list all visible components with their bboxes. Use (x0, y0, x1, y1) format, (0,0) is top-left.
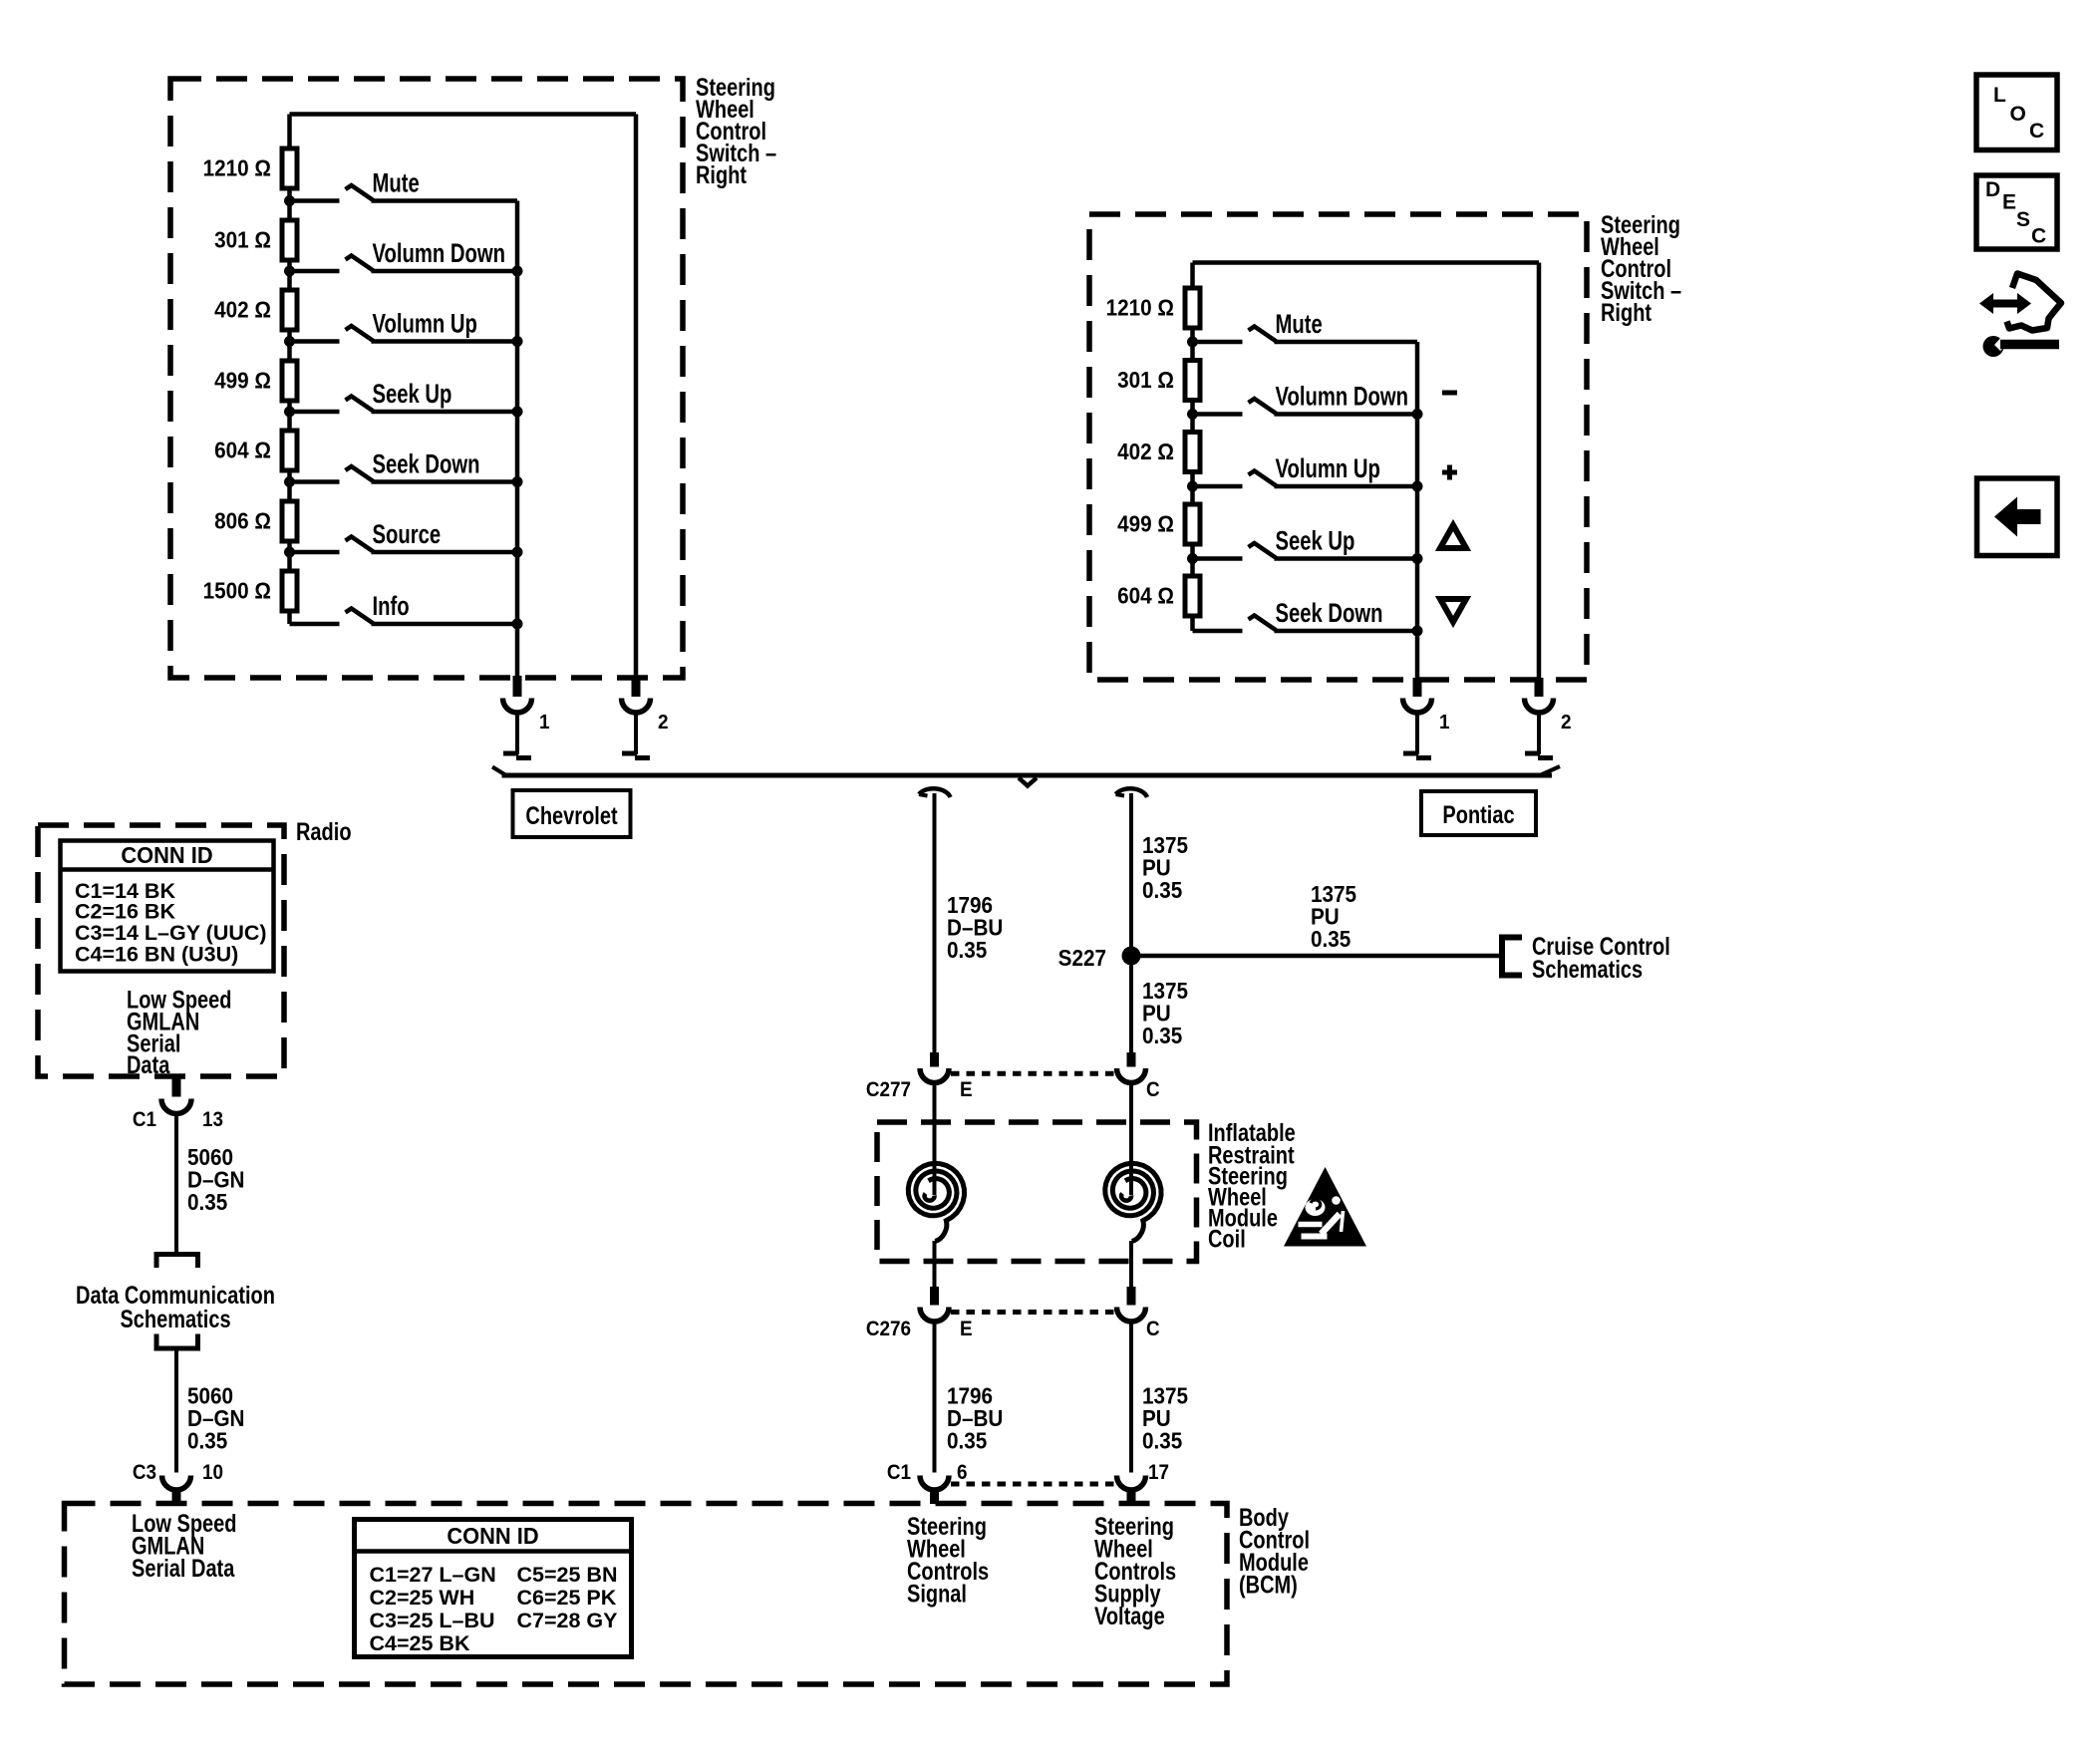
svg-text:E: E (2002, 191, 2016, 214)
label: 604 &#937; (left box) (214, 437, 271, 462)
svg-text:604 Ω: 604 Ω (1117, 582, 1174, 608)
svg-text:(BCM): (BCM) (1239, 1571, 1298, 1599)
coil spiral (supply) (1105, 1163, 1161, 1241)
bus merge chevron (1019, 778, 1037, 786)
icon: LOC button (1976, 75, 2057, 150)
svg-text:C1=27 L–GN: C1=27 L–GN (370, 1563, 496, 1587)
svg-text:C277: C277 (866, 1078, 911, 1101)
svg-text:17: 17 (1148, 1461, 1169, 1484)
svg-text:Volumn Down: Volumn Down (373, 238, 505, 269)
symbol: plus (Volumn Up) (1442, 465, 1457, 480)
off-page bracket: data communication (top) (156, 1255, 198, 1269)
junction dot ladder row 2 (right box) (1187, 409, 1198, 420)
svg-text:301 Ω: 301 Ω (1117, 367, 1174, 393)
svg-text:Schematics: Schematics (1532, 956, 1643, 984)
label: 5060 D-GN 0.35 (upper) (187, 1144, 245, 1215)
bus end tick left (492, 767, 505, 775)
label: 1210 &#937; (right box) (1106, 294, 1174, 320)
wire: coil to C276-C (1129, 1241, 1133, 1287)
label C277 (866, 1078, 911, 1101)
label: 1500 &#937; (left box) (203, 577, 271, 603)
switch: Info (left box) (290, 591, 518, 624)
switch: Source (left box) (290, 519, 518, 552)
label: Low Speed GMLAN Serial Data (Radio) (127, 986, 232, 1078)
svg-text:0.35: 0.35 (947, 1427, 987, 1453)
label: 499 &#937; (left box) (214, 367, 271, 393)
svg-text:E: E (960, 1318, 973, 1340)
junction dot bus row 5 (left box) (512, 476, 523, 487)
svg-text:Source: Source (373, 519, 442, 550)
switch: Volumn Up (left box) (290, 309, 518, 342)
wire: C276-E to BCM (933, 1322, 937, 1473)
svg-text:402 Ω: 402 Ω (214, 296, 271, 322)
svg-text:6: 6 (957, 1461, 968, 1484)
wire: top jumper of right switch assembly (1193, 263, 1540, 681)
svg-text:1: 1 (1439, 712, 1450, 735)
wire: top jumper of left switch assembly (290, 115, 637, 679)
svg-text:Pontiac: Pontiac (1442, 801, 1514, 829)
svg-text:C3=14 L–GY (UUC): C3=14 L–GY (UUC) (75, 921, 267, 945)
svg-text:C1: C1 (887, 1461, 911, 1484)
connector C276 pin E (920, 1287, 949, 1322)
splice S227 (1058, 945, 1141, 971)
label: Inflatable Restraint Steering Wheel Module Coil (1208, 1119, 1296, 1253)
label: Cruise Control Schematics (1532, 933, 1670, 984)
connector pin 2 (Chevrolet switch) (622, 676, 651, 713)
icon: back arrow button (1977, 478, 2058, 556)
svg-text:1: 1 (539, 712, 550, 735)
junction dot ladder row 2 (left box) (284, 266, 295, 277)
svg-text:C1: C1 (133, 1108, 156, 1131)
resistor 402 ohm (left box, row 3) (282, 290, 297, 330)
svg-text:C5=25 BN: C5=25 BN (517, 1563, 618, 1587)
label: 1796 D-BU 0.35 (upper) (947, 892, 1003, 963)
svg-text:Volumn Up: Volumn Up (1276, 453, 1380, 484)
junction dot bus row 4 (right box) (1412, 553, 1423, 564)
switch: Volumn Down (right box) (1193, 382, 1418, 415)
svg-text:Schematics: Schematics (120, 1306, 230, 1333)
connector pin 1 (Chevrolet switch) (503, 676, 532, 713)
label: 1796 D-BU 0.35 (lower) (947, 1382, 1003, 1453)
svg-text:C2=16 BK: C2=16 BK (75, 900, 175, 924)
label: Radio (296, 818, 352, 846)
svg-text:10: 10 (202, 1461, 223, 1484)
connector pin 2 (Pontiac switch) (1525, 678, 1554, 713)
svg-text:Data: Data (127, 1051, 170, 1079)
wire: horizontal merge bus (502, 773, 1553, 778)
label C (C276) (1146, 1318, 1160, 1340)
junction dot bus row 2 (right box) (1412, 409, 1423, 420)
label: 402 &#937; (left box) (214, 296, 271, 322)
label: Low Speed GMLAN Serial Data (BCM) (132, 1510, 237, 1583)
pin label 10 (BCM) (202, 1461, 223, 1484)
svg-text:S227: S227 (1058, 945, 1106, 971)
junction dot ladder row 3 (right box) (1187, 481, 1198, 492)
svg-text:806 Ω: 806 Ω (214, 507, 271, 533)
svg-text:CONN ID: CONN ID (447, 1523, 538, 1549)
svg-text:Mute: Mute (1276, 309, 1323, 340)
label: 402 &#937; (right box) (1117, 439, 1174, 464)
svg-text:C: C (2029, 120, 2044, 143)
label: Data Communication Schematics (76, 1282, 275, 1333)
switch: Seek Up (left box) (290, 379, 518, 412)
svg-text:Volumn Down: Volumn Down (1276, 382, 1408, 413)
svg-text:Chevrolet: Chevrolet (525, 802, 618, 830)
resistor 301 ohm (right box, row 2) (1185, 361, 1200, 401)
connector BCM pin 17 (1117, 1476, 1146, 1505)
wire tap squiggle (supply wire) (1116, 788, 1148, 797)
connector pin 1 (Pontiac switch) (1403, 678, 1432, 713)
junction dot bus row 3 (left box) (512, 336, 523, 347)
junction dot ladder row 6 (left box) (284, 547, 295, 558)
svg-text:499 Ω: 499 Ω (1117, 510, 1174, 536)
svg-text:1210 Ω: 1210 Ω (203, 154, 271, 180)
connector BCM pin 6 (920, 1476, 949, 1505)
svg-text:C7=28 GY: C7=28 GY (517, 1609, 618, 1632)
label: Body Control Module (BCM) (1239, 1504, 1310, 1599)
label E (C277) (960, 1078, 973, 1101)
label: Steering Wheel Controls Signal (907, 1513, 989, 1608)
wire: resistor ladder vertical (left box) (287, 147, 292, 624)
switch: Volumn Up (right box) (1193, 453, 1418, 486)
symbol: minus (Volumn Down) (1442, 391, 1457, 396)
warning triangle: SRS airbag (1284, 1167, 1366, 1247)
resistor 604 ohm (left box, row 5) (282, 431, 297, 470)
switch: Mute (left box) (290, 168, 518, 201)
svg-text:0.35: 0.35 (187, 1427, 227, 1453)
table: Radio CONN ID box (61, 841, 274, 972)
connector BCM pin 10 (162, 1476, 191, 1505)
pin label 6 (BCM) (957, 1461, 968, 1484)
svg-text:Coil: Coil (1208, 1225, 1246, 1253)
switch: Seek Down (right box) (1193, 598, 1418, 631)
label: 604 &#937; (right box) (1117, 582, 1174, 608)
resistor 499 ohm (left box, row 4) (282, 361, 297, 401)
svg-text:0.35: 0.35 (1142, 1427, 1182, 1453)
svg-text:Right: Right (696, 161, 747, 189)
junction dot bus row 7 (left box) (512, 619, 523, 630)
resistor 1210 ohm (right box, row 1) (1185, 288, 1200, 328)
label: 1375 PU 0.35 (above S227) (1142, 832, 1188, 903)
icon: schematic navigation (car outline with double arrow and wrench) (1979, 274, 2061, 358)
wire: switch output bus (left box) (515, 201, 520, 679)
svg-text:C4=16 BN (U3U): C4=16 BN (U3U) (75, 943, 238, 967)
label box: Chevrolet (513, 790, 631, 837)
label E (C276) (960, 1318, 973, 1340)
svg-text:402 Ω: 402 Ω (1117, 439, 1174, 464)
svg-text:C3=25 L–BU: C3=25 L–BU (370, 1609, 495, 1632)
pin label 13 (Radio) (202, 1108, 223, 1131)
wire: C277-E to coil (933, 1083, 937, 1196)
component box: Body Control Module (BCM), dashed outline (65, 1504, 1228, 1685)
svg-text:13: 13 (202, 1108, 223, 1131)
switch: Mute (right box) (1193, 309, 1418, 342)
svg-text:Seek Up: Seek Up (373, 379, 452, 410)
svg-text:0.35: 0.35 (1142, 877, 1182, 903)
junction dot ladder row 4 (left box) (284, 407, 295, 418)
resistor 806 ohm (left box, row 6) (282, 501, 297, 541)
svg-text:0.35: 0.35 (1142, 1023, 1182, 1048)
svg-text:301 Ω: 301 Ω (214, 226, 271, 252)
wire: below Pontiac pin 2 (1525, 713, 1553, 758)
dotted tie C277 (951, 1071, 1115, 1076)
svg-text:Seek Down: Seek Down (373, 449, 480, 480)
resistor 1210 ohm (left box, row 1) (282, 148, 297, 188)
svg-text:Signal: Signal (907, 1580, 967, 1608)
svg-text:C: C (1146, 1318, 1160, 1340)
wire: switch output bus (right box) (1415, 342, 1420, 680)
wire: 1796 D-BU 0.35 signal drop (933, 793, 937, 1052)
svg-text:1500 Ω: 1500 Ω (203, 577, 271, 603)
label: 1375 PU 0.35 (below S227) (1142, 978, 1188, 1048)
svg-text:Volumn Up: Volumn Up (373, 309, 477, 340)
svg-text:2: 2 (1561, 712, 1572, 735)
svg-text:L: L (1993, 84, 2006, 107)
junction dot bus row 3 (right box) (1412, 481, 1423, 492)
connector Radio C1 pin 13 (161, 1074, 191, 1114)
svg-text:Seek Up: Seek Up (1276, 526, 1355, 557)
svg-text:604 Ω: 604 Ω (214, 437, 271, 462)
label: 1210 &#937; (left box) (203, 154, 271, 180)
label: Steering Wheel Control Switch - Right (right box) (1601, 211, 1681, 327)
label: 499 &#937; (right box) (1117, 510, 1174, 536)
pin label 17 (BCM) (1148, 1461, 1169, 1484)
svg-text:D: D (1985, 178, 2000, 201)
label: 806 &#937; (left box) (214, 507, 271, 533)
label: 5060 D-GN 0.35 (lower) (187, 1382, 245, 1453)
wire: C277-C to coil (1129, 1083, 1133, 1196)
switch: Volumn Down (left box) (290, 238, 518, 271)
pin label 2 (Chevrolet) (658, 712, 669, 735)
dotted tie C276 (951, 1310, 1114, 1315)
svg-text:2: 2 (658, 712, 669, 735)
label: 301 &#937; (left box) (214, 226, 271, 252)
label: 1375 PU 0.35 (cruise branch) (1311, 881, 1356, 952)
resistor 301 ohm (left box, row 2) (282, 220, 297, 260)
component box: Steering Wheel Control Switch - Right (Pontiac), dashed outline (1089, 214, 1587, 680)
wire: S227 to cruise control (1131, 954, 1502, 959)
connector C277 pin C (1117, 1052, 1146, 1083)
svg-text:Serial Data: Serial Data (132, 1555, 235, 1583)
label C276 (866, 1318, 911, 1340)
label C1 (BCM) (887, 1461, 911, 1484)
svg-text:O: O (2010, 103, 2026, 126)
svg-text:499 Ω: 499 Ω (214, 367, 271, 393)
svg-text:Voltage: Voltage (1094, 1603, 1165, 1630)
svg-text:CONN ID: CONN ID (121, 842, 212, 868)
junction dot ladder row 5 (left box) (284, 476, 295, 487)
component box: Radio, dashed outline (38, 825, 284, 1076)
label C (C277) (1146, 1078, 1160, 1101)
switch: Seek Down (left box) (290, 449, 518, 482)
svg-text:C4=25 BK: C4=25 BK (370, 1631, 470, 1655)
wire tap squiggle (signal wire) (919, 788, 951, 797)
resistor 604 ohm (right box, row 5) (1185, 576, 1200, 616)
junction dot bus row 6 (left box) (512, 547, 523, 558)
svg-text:C: C (1146, 1078, 1160, 1101)
component box: Steering Wheel Control Switch - Right (Chevrolet), dashed outline (170, 79, 683, 678)
symbol: seek down triangle (1440, 599, 1466, 622)
label: 301 &#937; (right box) (1117, 367, 1174, 393)
svg-text:Mute: Mute (373, 168, 420, 199)
dotted tie BCM C1 (951, 1482, 1114, 1487)
wire: data bracket to BCM (174, 1348, 178, 1473)
label: Steering Wheel Control Switch - Right (left box) (696, 74, 776, 189)
table: BCM CONN ID box (355, 1520, 632, 1657)
connector C277 pin E (920, 1052, 949, 1083)
label C1 (Radio) (133, 1108, 156, 1131)
label C3 (BCM) (133, 1461, 156, 1484)
svg-text:S: S (2016, 208, 2030, 231)
svg-text:C3: C3 (133, 1461, 156, 1484)
resistor 499 ohm (right box, row 4) (1185, 504, 1200, 544)
off-page bracket: cruise control (1502, 938, 1522, 976)
wire: below Chevrolet pin 1 (503, 713, 531, 758)
svg-text:Radio: Radio (296, 818, 352, 846)
svg-text:C6=25 PK: C6=25 PK (517, 1586, 617, 1610)
svg-text:Right: Right (1601, 299, 1651, 327)
svg-text:1210 Ω: 1210 Ω (1106, 294, 1174, 320)
junction dot bus row 5 (right box) (1412, 626, 1423, 637)
wire: 1375 PU 0.35 supply drop upper (1129, 793, 1133, 1052)
resistor 1500 ohm (left box, row 7) (282, 571, 297, 611)
pin label 2 (Pontiac) (1561, 712, 1572, 735)
pin label 1 (Pontiac) (1439, 712, 1450, 735)
svg-text:0.35: 0.35 (187, 1189, 227, 1215)
pin label 1 (Chevrolet) (539, 712, 550, 735)
label: 1375 PU 0.35 (lower) (1142, 1382, 1188, 1453)
wire: coil to C276-E (933, 1241, 937, 1287)
junction dot bus row 2 (left box) (512, 266, 523, 277)
junction dot ladder row 1 (left box) (284, 195, 295, 206)
svg-text:E: E (960, 1078, 973, 1101)
wire: C276-C to BCM (1129, 1322, 1133, 1473)
svg-text:Info: Info (373, 591, 410, 622)
svg-text:Seek Down: Seek Down (1276, 598, 1383, 629)
wire: resistor ladder vertical (right box) (1190, 286, 1195, 631)
junction dot ladder row 3 (left box) (284, 336, 295, 347)
svg-text:C2=25 WH: C2=25 WH (370, 1586, 475, 1610)
switch: Seek Up (right box) (1193, 526, 1418, 559)
bus end tick right (1541, 766, 1560, 775)
connector C276 pin C (1117, 1287, 1146, 1322)
icon: DESC button (1976, 175, 2057, 249)
wire: radio to data bracket (174, 1113, 178, 1252)
junction dot ladder row 1 (right box) (1187, 337, 1198, 348)
component box: Inflatable Restraint Steering Wheel Module Coil (dashed) (877, 1122, 1197, 1262)
junction dot bus row 4 (left box) (512, 407, 523, 418)
symbol: seek up triangle (1440, 525, 1466, 548)
svg-text:C276: C276 (866, 1318, 911, 1340)
label: Steering Wheel Controls Supply Voltage (1094, 1513, 1176, 1630)
wire: below Pontiac pin 1 (1403, 713, 1431, 758)
coil spiral (signal) (908, 1163, 964, 1241)
resistor 402 ohm (right box, row 3) (1185, 433, 1200, 472)
wire: below Chevrolet pin 2 (622, 713, 650, 758)
svg-text:0.35: 0.35 (1311, 926, 1350, 952)
svg-text:0.35: 0.35 (947, 937, 987, 963)
label box: Pontiac (1421, 791, 1536, 835)
svg-text:C: C (2031, 225, 2046, 248)
off-page bracket: data communication (bottom) (156, 1334, 198, 1349)
junction dot ladder row 4 (right box) (1187, 553, 1198, 564)
